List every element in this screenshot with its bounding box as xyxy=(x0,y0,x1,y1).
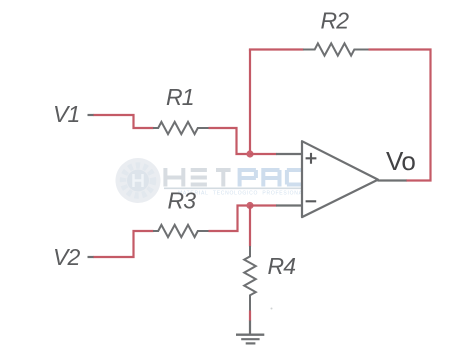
wire node B to R4 xyxy=(249,206,251,247)
svg-text:MATERIAL TECNOLOGICO PROFESI: MATERIAL TECNOLOGICO PROFESIONAL xyxy=(178,191,306,197)
watermark word HETPRO xyxy=(165,168,303,187)
watermark logo gear disc xyxy=(116,158,161,203)
svg-text:R1: R1 xyxy=(166,84,194,110)
svg-text:R2: R2 xyxy=(321,8,350,34)
wire R4 to ground xyxy=(249,311,251,322)
wire node A feedback riser xyxy=(249,50,251,156)
svg-text:R4: R4 xyxy=(268,253,296,279)
svg-text:R3: R3 xyxy=(168,188,197,214)
wire V2 to R3 xyxy=(94,231,154,257)
op-amp minus pin mark xyxy=(306,200,317,202)
resistor R4 xyxy=(244,246,256,311)
node A junction dot xyxy=(246,150,253,157)
wire top left to R2 xyxy=(249,48,304,50)
op-amp plus pin mark xyxy=(306,153,317,164)
resistor R1 xyxy=(153,122,209,134)
wire V1 to R1 xyxy=(94,115,154,128)
svg-text:V1: V1 xyxy=(53,101,80,127)
wire node A to plus input xyxy=(250,153,277,155)
wire output lead xyxy=(378,179,407,181)
wire R1 to node A xyxy=(209,128,251,154)
pin stub V1 xyxy=(88,114,95,116)
watermark underline xyxy=(164,187,309,189)
op-amp U1 xyxy=(302,141,378,217)
wire R2 to output riser xyxy=(369,50,431,181)
wire node B to minus input xyxy=(250,204,277,206)
stray speck xyxy=(271,308,273,310)
resistor R3 xyxy=(153,225,209,237)
ground xyxy=(236,321,264,344)
svg-text:V2: V2 xyxy=(53,244,81,270)
svg-text:Vo: Vo xyxy=(386,146,415,176)
pin stub V2 xyxy=(88,256,95,258)
wire minus input lead xyxy=(276,204,302,206)
wire plus input lead xyxy=(276,153,302,155)
wire R3 to node B xyxy=(209,206,251,232)
node B junction dot xyxy=(246,202,253,209)
resistor R2 xyxy=(303,43,369,55)
